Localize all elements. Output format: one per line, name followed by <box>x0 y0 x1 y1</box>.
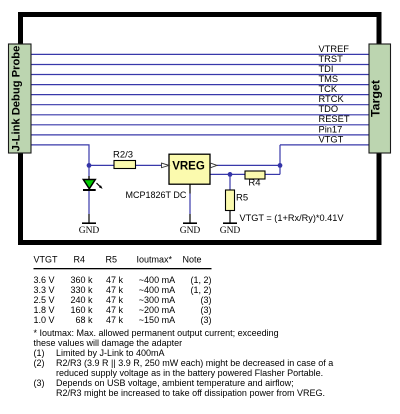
svg-text:(3): (3) <box>201 305 212 315</box>
svg-text:(3): (3) <box>201 295 212 305</box>
svg-text:3.3 V: 3.3 V <box>34 285 55 295</box>
svg-text:1.0 V: 1.0 V <box>34 315 55 325</box>
svg-text:240 k: 240 k <box>70 295 93 305</box>
svg-text:330 k: 330 k <box>70 285 93 295</box>
svg-text:Target: Target <box>369 80 383 117</box>
svg-text:TMS: TMS <box>319 74 339 84</box>
svg-text:68 k: 68 k <box>75 315 93 325</box>
svg-text:TDI: TDI <box>319 64 334 74</box>
svg-text:Ioutmax*: Ioutmax* <box>137 255 173 265</box>
svg-text:~200 mA: ~200 mA <box>139 305 175 315</box>
svg-text:TCK: TCK <box>319 84 338 94</box>
svg-text:R5: R5 <box>106 255 118 265</box>
svg-text:47 k: 47 k <box>106 285 124 295</box>
svg-text:~400 mA: ~400 mA <box>139 285 175 295</box>
svg-text:TDO: TDO <box>319 104 339 114</box>
svg-text:47 k: 47 k <box>106 305 124 315</box>
svg-text:(1, 2): (1, 2) <box>190 285 211 295</box>
svg-text:Pin17: Pin17 <box>319 124 343 134</box>
svg-text:R2/3: R2/3 <box>113 150 133 161</box>
svg-text:47 k: 47 k <box>106 315 124 325</box>
svg-text:VTGT: VTGT <box>319 134 344 144</box>
svg-text:(3): (3) <box>201 315 212 325</box>
svg-text:160 k: 160 k <box>70 305 93 315</box>
svg-text:~150 mA: ~150 mA <box>139 315 175 325</box>
svg-text:TRST: TRST <box>319 54 344 64</box>
svg-text:GND: GND <box>180 226 201 236</box>
svg-text:J-Link Debug Probe: J-Link Debug Probe <box>11 46 23 152</box>
svg-text:VTGT: VTGT <box>34 255 59 265</box>
svg-text:these values will damage the a: these values will damage the adapter <box>34 338 183 348</box>
svg-text:* Ioutmax: Max. allowed perma: * Ioutmax: Max. allowed permanent output… <box>34 328 279 338</box>
svg-text:1.8 V: 1.8 V <box>34 305 55 315</box>
svg-text:GND: GND <box>220 226 241 236</box>
svg-text:R4: R4 <box>248 178 260 189</box>
svg-text:R4: R4 <box>74 255 86 265</box>
svg-text:3.6 V: 3.6 V <box>34 275 55 285</box>
svg-text:VTREF: VTREF <box>319 44 350 54</box>
svg-text:~400 mA: ~400 mA <box>139 275 175 285</box>
svg-text:2.5 V: 2.5 V <box>34 295 55 305</box>
svg-text:Limited by J-Link to 400mA: Limited by J-Link to 400mA <box>56 348 165 358</box>
svg-text:VTGT = (1+Rx/Ry)*0.41V: VTGT = (1+Rx/Ry)*0.41V <box>240 213 345 223</box>
svg-text:~300 mA: ~300 mA <box>139 295 175 305</box>
svg-text:47 k: 47 k <box>106 295 124 305</box>
svg-text:R2/R3 (3.9 R || 3.9 R, 250 mW: R2/R3 (3.9 R || 3.9 R, 250 mW each) migh… <box>56 358 333 368</box>
svg-text:47 k: 47 k <box>106 275 124 285</box>
svg-text:R5: R5 <box>236 193 248 204</box>
svg-text:RESET: RESET <box>319 114 350 124</box>
svg-text:Note: Note <box>183 255 202 265</box>
svg-text:MCP1826T DC: MCP1826T DC <box>126 190 187 200</box>
svg-text:360 k: 360 k <box>70 275 93 285</box>
svg-text:Depends on USB voltage, ambien: Depends on USB voltage, ambient temperat… <box>56 378 294 388</box>
svg-text:(3): (3) <box>34 378 45 388</box>
svg-text:(1, 2): (1, 2) <box>190 275 211 285</box>
svg-text:(2): (2) <box>34 358 45 368</box>
svg-text:(1): (1) <box>34 348 45 358</box>
svg-text:GND: GND <box>79 226 100 236</box>
svg-text:R2/R3 might be increased to ta: R2/R3 might be increased to take off dis… <box>56 388 325 398</box>
svg-text:VREG: VREG <box>172 161 205 173</box>
svg-text:RTCK: RTCK <box>319 94 345 104</box>
svg-text:reduced supply voltage as in t: reduced supply voltage as in the battery… <box>56 368 323 378</box>
